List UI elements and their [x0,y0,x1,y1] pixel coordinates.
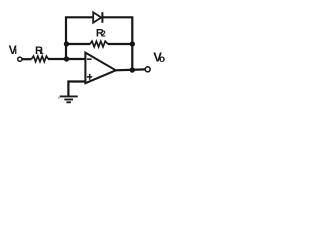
svg-text:i: i [15,46,18,56]
svg-text:o: o [159,54,165,65]
svg-text:2: 2 [101,30,106,39]
svg-text:1: 1 [40,47,44,56]
